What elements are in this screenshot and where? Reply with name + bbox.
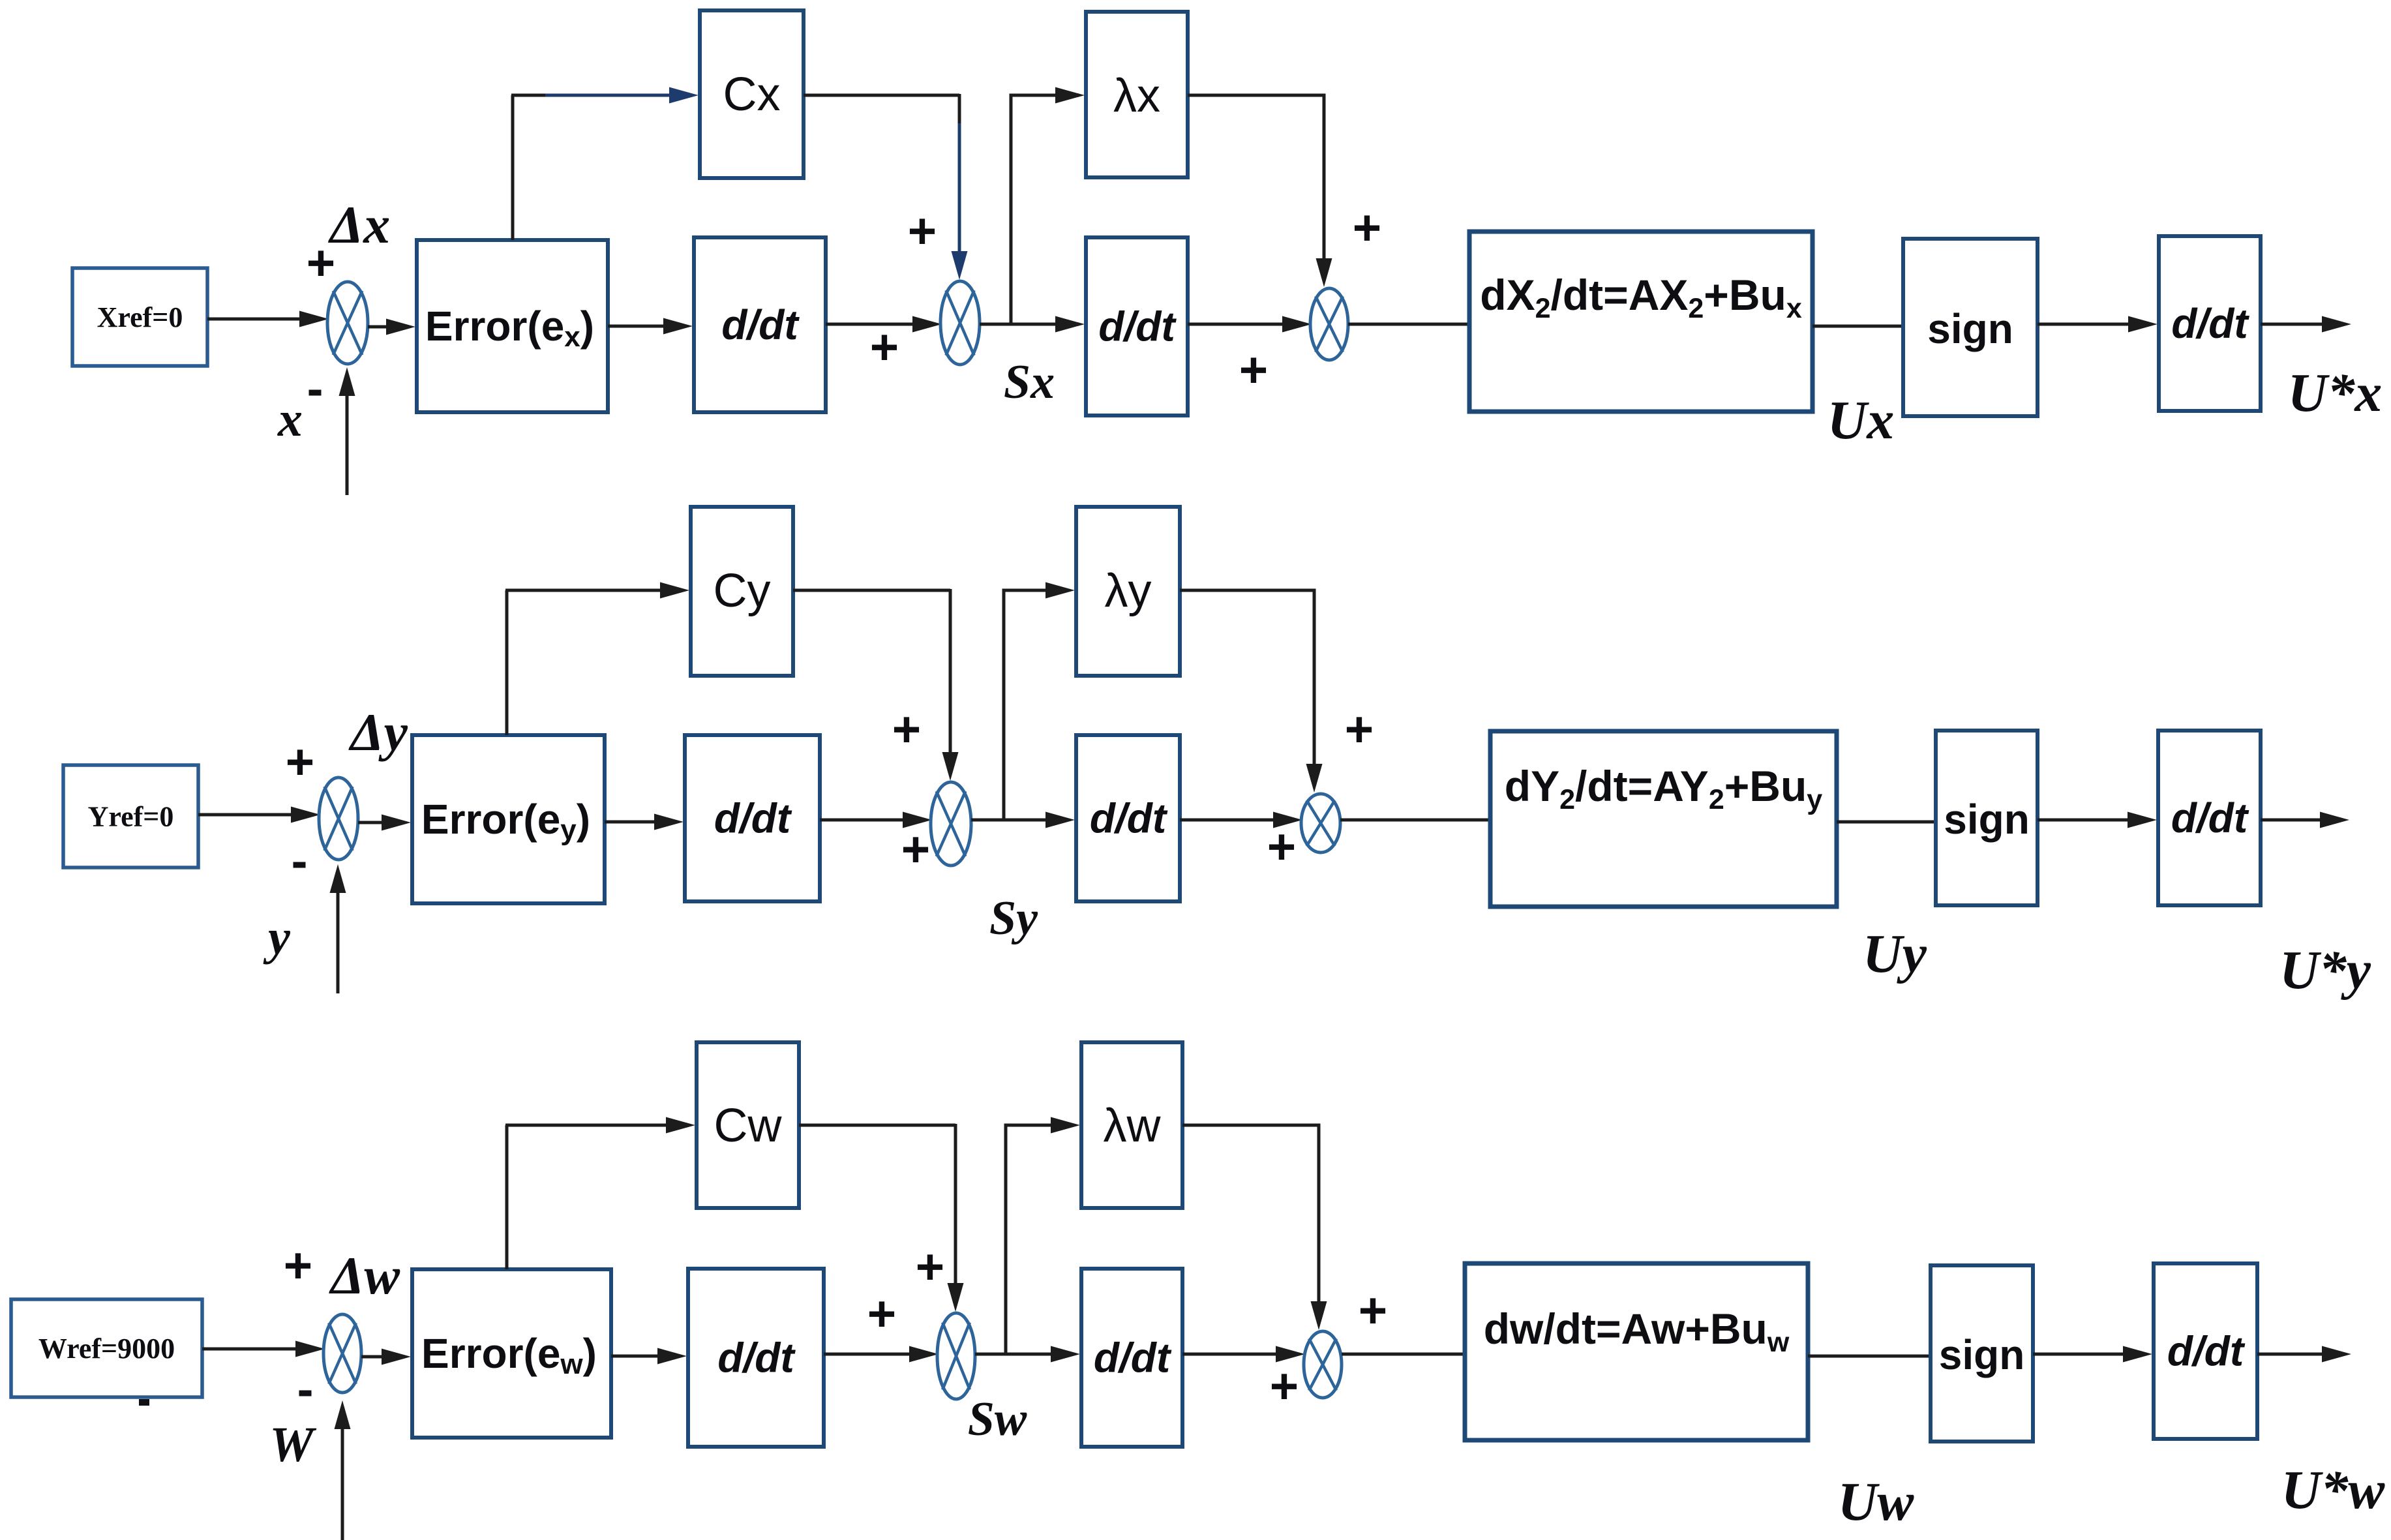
wire Cy output to summing junction 2 (793, 589, 959, 781)
node plus sign above multiplier Y (1345, 702, 1374, 757)
wire d/dt to summing junction 2 Y (820, 812, 932, 828)
svg-text:Uw: Uw (1838, 1472, 1915, 1532)
node plus sign at summing junction Y1 (286, 734, 314, 790)
block Cy gain (691, 507, 793, 676)
svg-text:+: + (867, 1286, 896, 1342)
block state equation X (1469, 232, 1812, 412)
svg-text:U*x: U*x (2288, 363, 2383, 423)
wire d/dt 2 to multiplier junction W (1182, 1346, 1305, 1363)
svg-text:λw: λw (1104, 1100, 1162, 1152)
svg-text:Uy: Uy (1863, 924, 1927, 984)
wire Error W top branch to Cw (505, 1125, 509, 1269)
svg-text:λx: λx (1113, 70, 1160, 122)
wire λw output to multiplier junction (1182, 1125, 1327, 1330)
svg-text:Xref=0: Xref=0 (97, 301, 183, 333)
node minus sign at summing junction Y1 (293, 862, 306, 868)
summing junction S2x (940, 281, 980, 365)
svg-text:+: + (1345, 702, 1374, 757)
svg-text:d/dt: d/dt (714, 795, 792, 842)
svg-text:+: + (892, 702, 921, 757)
block d/dt first derivative W (688, 1269, 824, 1447)
svg-text:d/dt: d/dt (721, 301, 800, 348)
node Δy error signal label (348, 702, 408, 762)
node plus sign above multiplier W (1359, 1283, 1387, 1338)
summing junction S2y (931, 782, 971, 866)
wire summing junction 2 to d/dt 2 X (980, 316, 1085, 333)
svg-text:Δy: Δy (348, 702, 408, 762)
multiplier junction X (1310, 288, 1348, 360)
block d/dt second derivative Y (1076, 735, 1180, 901)
wire into Cx box (navy segment) (511, 87, 699, 104)
wire Cx output to summing junction 2 (navy arrow) (804, 94, 968, 280)
svg-text:+: + (286, 734, 314, 790)
wire summing junction 2 to d/dt 2 Y (971, 812, 1075, 828)
node plus sign below multiplier X (1239, 342, 1268, 398)
svg-text:d/dt: d/dt (1098, 303, 1177, 350)
wire state equation to sign block W (1808, 1355, 1933, 1358)
block d/dt first derivative Y (685, 735, 820, 901)
wire branch up to λw (1006, 1117, 1080, 1355)
summing junction S1w (323, 1314, 361, 1393)
wire sign to output d/dt Y (2038, 812, 2157, 828)
wire Error X to d/dt block (608, 318, 693, 335)
wire λx output to multiplier junction (1188, 95, 1332, 287)
block λy gain (1076, 507, 1180, 676)
wire Error W to d/dt block (611, 1348, 687, 1365)
node plus sign above summing junction 2 Y (892, 702, 921, 757)
node plus sign at summing junction X1 (307, 235, 335, 291)
wire sign to output d/dt W (2033, 1346, 2152, 1363)
block sign function W (1931, 1265, 2033, 1442)
svg-text:dw/dt=Aw+Buw: dw/dt=Aw+Buw (1484, 1305, 1790, 1358)
svg-text:Sx: Sx (1004, 355, 1055, 409)
wire Xref to summing junction (207, 311, 329, 327)
node plus sign below multiplier W (1270, 1359, 1299, 1414)
wire multiplier to state equation block X (1348, 323, 1472, 326)
wire Error X top branch to Cx (511, 95, 515, 240)
wire multiplier to state equation block W (1342, 1353, 1467, 1356)
node x feedback label (277, 392, 303, 447)
node W feedback label (269, 1417, 317, 1472)
block λx gain (1086, 12, 1188, 177)
multiplier junction W (1304, 1331, 1342, 1398)
node plus sign above multiplier X (1353, 200, 1381, 256)
wire Error Y to d/dt block (605, 814, 684, 830)
svg-text:d/dt: d/dt (1094, 1335, 1172, 1381)
wire summing junction to Error block W (361, 1349, 411, 1365)
svg-text:+: + (916, 1239, 944, 1295)
svg-text:d/dt: d/dt (1090, 795, 1168, 842)
svg-text:Sw: Sw (968, 1393, 1027, 1446)
block d/dt output derivative W (2154, 1263, 2257, 1439)
svg-text:sign: sign (1927, 305, 2013, 352)
block Error(ey) (412, 735, 605, 903)
svg-text:Δw: Δw (329, 1246, 400, 1305)
node Uy control label (1863, 924, 1927, 984)
svg-text:dX2/dt=AX2+Bux: dX2/dt=AX2+Bux (1480, 271, 1802, 324)
svg-text:+: + (1353, 200, 1381, 256)
svg-text:U*w: U*w (2281, 1460, 2386, 1520)
node plus sign above summing junction 2 W (916, 1239, 944, 1295)
svg-text:+: + (901, 822, 930, 877)
block sign function X (1903, 239, 2038, 416)
svg-text:U*y: U*y (2279, 940, 2371, 1001)
wire multiplier to state equation block Y (1340, 819, 1493, 822)
block λw gain (1081, 1042, 1182, 1208)
node plus sign at summing junction W1 (284, 1238, 312, 1293)
block Error(ex) (417, 240, 608, 412)
svg-text:sign: sign (1944, 796, 2030, 843)
wire state equation to sign block X (1812, 325, 1906, 328)
block Error(ew) (412, 1269, 611, 1438)
block sign function Y (1936, 731, 2038, 905)
node plus sign below summing junction 2 W (867, 1286, 896, 1342)
svg-text:Sy: Sy (989, 892, 1038, 945)
block Xref reference input box (72, 268, 207, 366)
node y feedback label (263, 910, 290, 965)
svg-text:+: + (908, 204, 937, 259)
wire Error Y top branch to Cy (505, 590, 509, 735)
svg-text:d/dt: d/dt (717, 1335, 796, 1381)
svg-text:sign: sign (1939, 1331, 2025, 1378)
wire branch up to λy (1004, 582, 1075, 821)
svg-text:+: + (1270, 1359, 1299, 1414)
svg-text:d/dt: d/dt (2171, 300, 2249, 347)
svg-text:Cy: Cy (714, 565, 771, 617)
block Yref reference input box (63, 765, 198, 868)
wire into Cw box (505, 1117, 695, 1134)
wire output U*x (2261, 316, 2351, 333)
wire Wref to summing junction (202, 1341, 325, 1357)
node U*x output label (2288, 363, 2383, 423)
svg-text:+: + (1239, 342, 1268, 398)
wire output U*y (2261, 812, 2349, 828)
svg-text:W: W (269, 1417, 317, 1472)
node minus sign at summing junction W1 (299, 1391, 312, 1397)
svg-text:λy: λy (1105, 565, 1152, 617)
node U*y output label (2279, 940, 2371, 1001)
multiplier junction Y (1301, 794, 1340, 853)
node minus sign at summing junction X1 (309, 390, 322, 396)
wire λy output to multiplier junction (1180, 590, 1323, 793)
node Sw sliding surface label (968, 1393, 1027, 1446)
svg-text:Yref=0: Yref=0 (88, 801, 174, 833)
svg-text:Cx: Cx (723, 68, 781, 121)
summing junction S1y (319, 778, 358, 860)
node Uw control label (1838, 1472, 1915, 1532)
wire d/dt to summing junction 2 W (824, 1346, 939, 1363)
block d/dt second derivative W (1081, 1269, 1182, 1447)
node stray dash under Wref box (139, 1399, 149, 1406)
node Δx error signal label (328, 195, 390, 254)
summing junction S1x (327, 282, 368, 364)
wire summing junction 2 to d/dt 2 W (975, 1346, 1080, 1363)
wire d/dt to summing junction 2 X (826, 316, 942, 333)
wire d/dt 2 to multiplier junction X (1188, 316, 1312, 333)
svg-text:+: + (284, 1238, 312, 1293)
node plus sign below multiplier Y (1267, 819, 1296, 875)
svg-text:d/dt: d/dt (2171, 794, 2249, 841)
node plus sign above summing junction 2 X (908, 204, 937, 259)
wire summing junction to Error block X (368, 319, 415, 335)
node plus sign below summing junction 2 Y (901, 822, 930, 877)
wire into Cy box (505, 582, 689, 599)
svg-text:Δx: Δx (328, 195, 390, 254)
svg-text:+: + (870, 320, 899, 375)
wire state equation to sign block Y (1837, 821, 1938, 824)
svg-text:+: + (1267, 819, 1296, 875)
node Δw error signal label (329, 1246, 400, 1305)
block d/dt first derivative X (694, 237, 826, 412)
wire sign to output d/dt X (2038, 316, 2158, 333)
block d/dt output derivative Y (2158, 731, 2261, 905)
block Wref reference input box (11, 1299, 202, 1397)
block Cx gain (700, 10, 804, 178)
svg-text:dY2/dt=AY2+Buy: dY2/dt=AY2+Buy (1505, 762, 1823, 815)
wire summing junction to Error block Y (358, 815, 411, 831)
svg-text:Wref=9000: Wref=9000 (38, 1333, 175, 1365)
svg-text:+: + (1359, 1283, 1387, 1338)
wire Cw output to summing junction 2 (799, 1124, 964, 1312)
svg-text:Cw: Cw (714, 1100, 783, 1152)
wire y feedback into summing junction (330, 864, 346, 993)
wire output U*w (2257, 1346, 2351, 1363)
node U*w output label (2281, 1460, 2386, 1520)
node plus sign below summing junction 2 X (870, 320, 899, 375)
wire x feedback into summing junction (339, 367, 355, 495)
node Sy sliding surface label (989, 892, 1038, 945)
wire w feedback into summing junction (335, 1400, 351, 1540)
summing junction S2w (937, 1313, 975, 1399)
svg-text:Ux: Ux (1827, 390, 1895, 451)
block d/dt output derivative X (2159, 236, 2261, 411)
wire Yref to summing junction (198, 807, 320, 823)
svg-text:x: x (277, 392, 303, 447)
block d/dt second derivative X (1086, 237, 1188, 415)
wire branch up to λx (1011, 87, 1085, 325)
node Ux control label (1827, 390, 1895, 451)
svg-text:d/dt: d/dt (2167, 1328, 2246, 1375)
block state equation Y (1490, 731, 1837, 907)
block Cw gain (697, 1042, 799, 1208)
wire d/dt 2 to multiplier junction Y (1180, 812, 1302, 828)
node Sx sliding surface label (1004, 355, 1055, 409)
block state equation W (1465, 1263, 1808, 1440)
